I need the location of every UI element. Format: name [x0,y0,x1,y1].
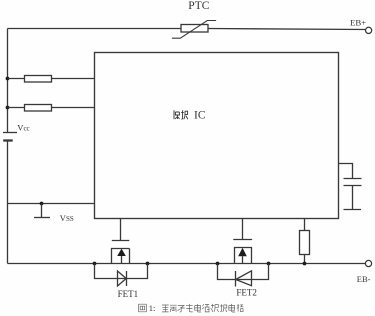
transistor FET2 source stem [242,256,244,263]
transistor FET1 body [112,249,130,264]
capacitor C1 bottom plate [344,185,362,187]
diode D1 cathode bar [126,271,128,286]
caption 图1: 锂离子电池组保护电路 (pseudo-glyphs) [139,304,147,312]
wire: top rail left segment (B+ to PTC) [8,28,182,30]
wire: R2 right lead [52,107,95,109]
svg-text:VSS: VSS [60,213,74,223]
svg-text:1:: 1: [149,303,156,313]
wire: capacitor C1 top lead [339,164,353,179]
wire: R1 right lead [52,78,95,80]
svg-text:EB-: EB- [357,274,371,284]
label 保护 (pseudo-glyphs) [174,110,188,119]
svg-text:FET2: FET2 [236,288,257,298]
transistor FET2 gate bar [233,239,252,241]
diode D1 (FET1 body diode) triangle [118,271,127,286]
node: C1 bottom terminal bar [344,209,362,211]
svg-text:EB+: EB+ [350,18,366,28]
diode D2 (FET2 body diode) triangle [236,271,252,286]
ground Vss stem [41,204,43,218]
wire: left rail lower (battery to bottom rail) [7,141,9,264]
wire: R2 left lead [8,107,25,109]
battery Vcc negative plate [3,139,13,141]
terminal EB+ [366,27,372,33]
wire: left rail upper (top rail to battery) [7,29,9,133]
wire: FET1 gate lead [120,219,122,241]
transistor FET1 gate bar [112,240,130,242]
junction node Vss-ground [40,202,44,206]
svg-text:FET1: FET1 [118,289,139,299]
transistor FET1 arrow [117,249,126,256]
wire: FET2 gate lead [242,219,244,240]
svg-text:IC: IC [194,110,206,122]
capacitor C1 top plate [344,178,362,180]
wire: diode D1 loop [95,264,148,279]
wire: top rail right segment (PTC to EB+) [208,29,365,30]
resistor R1 [25,76,52,83]
wire: bottom rail (B- net) [8,263,366,265]
wire: Vss net (rail to IC) [8,203,95,205]
protection IC U1 (保护 IC) [95,53,339,219]
svg-text:Vcc: Vcc [17,122,29,132]
battery Vcc positive plate [3,132,17,134]
resistor R2 [25,105,52,112]
junction node rail-R1 [6,77,10,81]
wire: R3 top lead [304,219,306,232]
transistor FET2 arrow [238,248,247,256]
wire: R1 left lead [8,78,25,80]
junction node FET2 source [216,262,220,266]
resistor R3 [300,231,310,255]
wire: R3 bottom lead [304,255,306,264]
PTC thermistor diagonal stroke [172,21,216,39]
ground Vss bar [34,217,50,219]
junction node FET1 source [146,262,150,266]
junction node FET2 drain [267,262,271,266]
junction node rail-R2 [6,106,10,110]
terminal EB- [365,260,371,266]
PTC thermistor body [181,25,208,33]
junction node FET1 drain [93,262,97,266]
wire: diode D2 loop [218,264,269,280]
diode D2 cathode bar [235,271,237,287]
transistor FET2 body [235,248,252,264]
junction node R3-bottom rail [303,262,307,266]
wire: capacitor C1 bottom lead [352,186,354,210]
svg-text:PTC: PTC [188,0,209,12]
transistor FET1 source stem [121,256,123,264]
